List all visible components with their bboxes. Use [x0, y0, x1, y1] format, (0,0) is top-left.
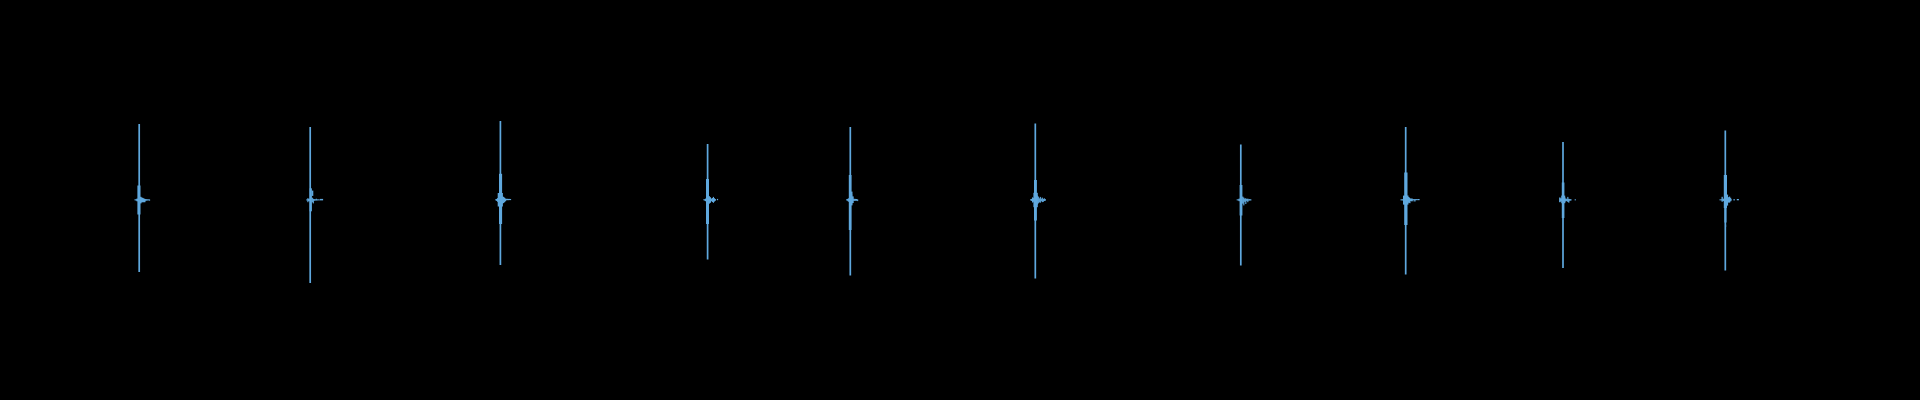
- spike 10 body bar: [1724, 175, 1727, 208]
- spike 8 extra mark 3: [1418, 199, 1420, 200]
- spike 8 wide center bar: [1403, 196, 1408, 205]
- spike 6 decay tail columns: [1037, 195, 1038, 204]
- waveform click spike 8: [1401, 127, 1420, 275]
- waveform click spike 2: [306, 127, 323, 283]
- spike 10 wide center bar: [1724, 208, 1726, 223]
- spike 5 decay tail columns: [851, 194, 852, 204]
- spike 8 decay tail columns: [1407, 196, 1408, 205]
- spike 6 peak line: [1034, 124, 1036, 279]
- spike 4 decay tail columns: [709, 196, 710, 203]
- spike 9 left tick columns: [1561, 198, 1562, 201]
- spike 7 body bar: [1240, 185, 1243, 216]
- spike 6 body bar: [1034, 180, 1037, 221]
- waveform click spike 9: [1559, 142, 1576, 268]
- spike 4 body bar: [706, 179, 709, 224]
- waveform click spike 10: [1719, 131, 1739, 271]
- spike 8 body bar: [1404, 173, 1407, 226]
- spike 3 wide center bar: [498, 193, 503, 207]
- waveform click spike 3: [495, 121, 511, 265]
- spike 1 decay tail columns: [140, 197, 141, 204]
- spike 10 peak line: [1724, 131, 1726, 271]
- spike 7 decay tail columns: [1242, 197, 1243, 204]
- spike 9 peak line: [1562, 142, 1564, 268]
- spike 3 body bar: [499, 174, 502, 224]
- spike 2 body bar: [309, 188, 312, 211]
- spike 1 left tick columns: [136, 199, 137, 202]
- spike 1 peak line: [138, 124, 140, 272]
- spike 10 extra mark 3: [1725, 225, 1727, 227]
- spike 8 peak line: [1405, 127, 1407, 275]
- waveform click spike 5: [846, 127, 858, 276]
- spike 7 left tick columns: [1239, 199, 1240, 202]
- spike 6 left tick columns: [1033, 198, 1034, 202]
- waveform click spike 6: [1030, 124, 1046, 279]
- spike 4 peak line: [707, 144, 709, 260]
- spike 8 extra mark 1: [1413, 199, 1418, 200]
- spike 8 left tick columns: [1403, 199, 1404, 201]
- spike 9 decay tail columns: [1564, 197, 1565, 202]
- spike 10 left tick columns: [1723, 199, 1724, 201]
- spike 2 decay tail columns: [312, 198, 313, 203]
- spike 2 left tick columns: [308, 199, 309, 201]
- spike 5 extra mark 1: [852, 192, 853, 206]
- spike 10 extra mark 1: [1733, 199, 1735, 200]
- spike 9 wide center bar: [1561, 196, 1565, 204]
- spike 4 left tick columns: [705, 199, 706, 202]
- spike 2 extra mark 1: [320, 199, 323, 201]
- spike 9 body bar: [1562, 183, 1565, 219]
- spike 5 peak line: [849, 127, 851, 276]
- waveform click spike 7: [1237, 145, 1252, 266]
- spike 8 extra mark 2: [1414, 200, 1416, 201]
- waveform click spike 4: [703, 144, 718, 260]
- spike 1 body bar: [137, 186, 140, 215]
- spike 6 wide center bar: [1033, 193, 1037, 207]
- spike 3 decay tail columns: [502, 197, 503, 204]
- spike 2 extra mark 2: [312, 191, 313, 196]
- spike 7 peak line: [1240, 145, 1242, 266]
- spike 10 extra mark 2: [1737, 199, 1739, 200]
- spike 4 extra mark 1: [717, 199, 718, 200]
- spike 3 peak line: [500, 121, 502, 265]
- spike 3 left tick columns: [498, 199, 499, 201]
- spike 2 peak line: [309, 127, 311, 283]
- waveform click spike 1: [134, 124, 150, 272]
- spike 5 body bar: [849, 175, 852, 230]
- spike 9 extra mark 1: [1575, 199, 1576, 200]
- spike 5 left tick columns: [848, 198, 849, 201]
- spike 10 decay tail columns: [1727, 195, 1728, 206]
